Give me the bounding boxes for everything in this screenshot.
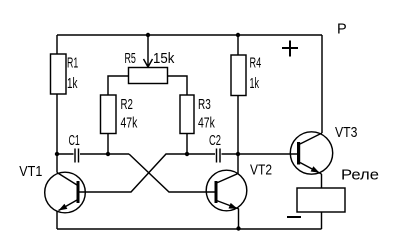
wire VT2 emitter stem: [238, 209, 240, 229]
node R4 top junction: [236, 33, 240, 37]
potentiometer R5: [129, 68, 168, 84]
transistor VT2: [206, 170, 247, 211]
node C2 / R3: [185, 152, 189, 156]
capacitor C1: [57, 149, 129, 163]
wire VT2 collector: [217, 154, 239, 183]
wire R5 wiper: [144, 35, 153, 67]
wire cross-couple C1 node to VT2 base: [129, 154, 215, 192]
svg-text:1k: 1k: [250, 75, 260, 92]
resistor R1: [51, 54, 67, 94]
capacitor C2: [187, 149, 238, 163]
svg-text:47k: 47k: [121, 115, 138, 132]
svg-text:15k: 15k: [153, 50, 175, 67]
resistor R3: [180, 95, 194, 134]
transistor VT1 emitter arrow: [59, 204, 68, 211]
svg-text:P: P: [337, 21, 347, 38]
transistor VT3: [290, 132, 332, 174]
wire R2 bottom stem: [107, 134, 109, 155]
transistor VT3 emitter arrow: [311, 166, 320, 173]
svg-text:47k: 47k: [198, 115, 215, 132]
wire VT2 collector node to VT3 base: [238, 153, 297, 155]
transistor VT1 base bar: [77, 181, 80, 203]
node VT1 collector / C1: [55, 152, 59, 156]
wire bottom rail: [57, 228, 322, 230]
node VT2 emitter / bottom rail: [236, 226, 240, 230]
wire top rail +: [57, 34, 322, 36]
wire cross-couple C2 node to VT1 base: [80, 154, 188, 192]
svg-text:VT2: VT2: [250, 162, 272, 179]
svg-text:C1: C1: [69, 132, 80, 149]
plus terminal symbol: [282, 41, 298, 57]
svg-text:R5: R5: [125, 50, 136, 67]
node VT2 collector / C2 / R4: [236, 152, 240, 156]
transistor VT3 base bar: [297, 142, 300, 165]
svg-text:R3: R3: [198, 96, 211, 113]
wire relay bottom stem: [321, 212, 323, 229]
wire VT3 emitter to relay: [321, 174, 323, 188]
transistor VT2 emitter arrow: [229, 203, 238, 209]
svg-text:R4: R4: [250, 55, 262, 72]
minus terminal symbol: [287, 216, 301, 218]
resistor R4: [231, 55, 246, 96]
wire R3 bottom stem: [186, 134, 188, 155]
transistor VT1: [45, 172, 86, 213]
svg-text:Реле: Реле: [341, 167, 379, 184]
wire R5 right link to R3: [168, 76, 188, 95]
svg-text:VT1: VT1: [19, 163, 42, 180]
node R5 wiper junction: [146, 33, 150, 37]
wire R4 top stem: [237, 35, 239, 55]
relay coil K1: [297, 188, 345, 212]
wire R1 top stem: [56, 35, 58, 54]
wire VT1 emitter stem: [56, 211, 58, 229]
wire R4 bottom to VT2 collector node: [237, 96, 239, 155]
wire R5 left link to R2: [108, 76, 129, 95]
node C1 / R2: [106, 152, 110, 156]
svg-text:C2: C2: [209, 132, 221, 149]
svg-text:VT3: VT3: [335, 124, 357, 141]
resistor R2: [101, 95, 117, 134]
wire right border to VT3 collector: [321, 35, 323, 133]
transistor VT2 base bar: [215, 181, 218, 203]
svg-text:R2: R2: [121, 96, 133, 113]
svg-text:1k: 1k: [67, 75, 78, 92]
wire R1 bottom to VT1 collector: [56, 94, 58, 173]
svg-text:R1: R1: [67, 55, 78, 72]
